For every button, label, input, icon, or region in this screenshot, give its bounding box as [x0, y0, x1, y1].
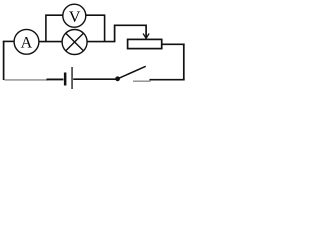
voltmeter V	[63, 4, 86, 27]
lamp (circle with X)	[62, 30, 87, 55]
rheostat body R	[128, 39, 162, 48]
battery: short thick plate	[64, 73, 67, 86]
switch pivot dot	[115, 76, 120, 81]
switch right contact (gray)	[133, 80, 151, 82]
slider arrowhead	[143, 34, 149, 39]
wire left vertical edge	[3, 41, 5, 80]
svg-text:A: A	[21, 34, 33, 51]
wire switch to bottom-right corner	[150, 79, 185, 81]
wire top-left corner to ammeter	[3, 40, 14, 42]
battery: long thin plate	[71, 67, 72, 89]
wire battery to switch	[73, 78, 116, 80]
wire bottom to battery	[47, 78, 64, 80]
wire lamp to corner (with junction of voltmeter branch)	[87, 41, 115, 43]
wire voltmeter left branch	[46, 15, 63, 41]
svg-text:V: V	[69, 9, 81, 26]
wire rheostat to right edge	[162, 43, 184, 45]
wire right vertical edge	[183, 44, 185, 81]
switch lever (open)	[118, 66, 146, 79]
wire ammeter to lamp	[39, 41, 62, 43]
wire voltmeter right branch	[86, 15, 105, 41]
wire to rheostat slider	[115, 25, 147, 41]
ammeter A	[14, 29, 39, 54]
wire bottom left (gray)	[4, 79, 47, 81]
